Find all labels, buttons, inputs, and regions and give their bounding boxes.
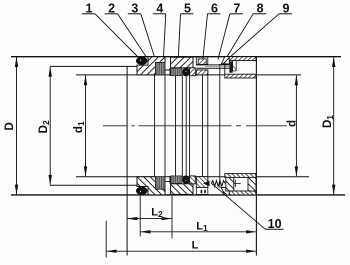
spring 4 bottom	[156, 177, 166, 189]
node: spring B right edge	[181, 75, 183, 177]
seat clamp square top	[233, 61, 237, 71]
pin bar top	[196, 64, 229, 66]
spring 4 top	[156, 63, 166, 75]
node: o-ring edge silhouette	[185, 76, 187, 177]
node: gland left silhouette	[219, 64, 221, 188]
stationary seat upper block top	[196, 57, 208, 64]
dimension D2	[49, 67, 51, 185]
gland top band bottom-half	[229, 191, 256, 195]
node: collar right face	[164, 57, 166, 195]
wire: sleeve od / d1 line top	[76, 74, 301, 76]
spring 10 zigzag bottom	[211, 181, 225, 187]
gland cavity hatched right block bottom	[248, 177, 256, 191]
node: gland right face	[255, 57, 257, 256]
svg-text:D: D	[4, 122, 16, 130]
dimension L2	[128, 218, 172, 220]
gland flange 9 top	[221, 57, 229, 64]
o-ring 1 top	[136, 57, 147, 65]
o-ring 6 top	[182, 68, 190, 77]
wire: housing bore bottom line D	[11, 194, 345, 196]
seat lower white block bottom	[196, 188, 208, 195]
gland flange 9 bottom	[221, 188, 229, 195]
dimension d1	[85, 75, 87, 176]
retainer 5 bottom	[171, 184, 193, 195]
spring B bottom	[171, 176, 182, 184]
stationary seat 8 bottom	[196, 177, 208, 188]
collar 2 bottom	[137, 177, 165, 195]
dimension D	[16, 57, 18, 194]
dimension L	[107, 250, 256, 252]
gland bolt block hatched bottom	[226, 177, 234, 191]
dimension d	[295, 75, 297, 176]
spring seat step bottom	[165, 177, 170, 182]
centerline	[103, 125, 287, 127]
extension line L left	[105, 221, 107, 258]
gland bottom band bottom-half	[225, 174, 256, 178]
svg-text:L1: L1	[196, 221, 208, 234]
svg-text:L: L	[192, 240, 199, 252]
rotating face 7 bottom	[190, 176, 196, 184]
spring B left seat bar top	[170, 68, 171, 76]
spring left seat dark wedge bottom	[203, 181, 210, 187]
wire: D2 extension bottom	[50, 184, 137, 186]
stationary seat 8 top	[196, 70, 208, 75]
spring B top	[171, 68, 182, 76]
wire: D2 extension top	[50, 65, 137, 67]
node: collar boundary silhouette	[154, 57, 156, 195]
bolt hole center mark bottom	[234, 182, 241, 184]
gland set screw dark bar top	[229, 62, 232, 73]
node: seal interface edge	[202, 75, 204, 177]
collar 2 top	[137, 57, 165, 75]
svg-text:L2: L2	[151, 206, 163, 219]
wire: housing bore top line D	[11, 56, 341, 58]
node: sleeve left face	[126, 66, 128, 255]
node: stationary seat right edge	[207, 70, 209, 182]
dimension D1	[333, 57, 335, 194]
gland bottom band top-half	[225, 74, 256, 78]
extension line L2 right	[171, 196, 173, 239]
extension line L1 left	[139, 196, 141, 237]
gland top band	[229, 57, 256, 61]
wire: sleeve od / d1 line bottom	[76, 176, 309, 178]
o-ring 1 bottom	[136, 187, 147, 195]
rotating face 7 top	[190, 68, 196, 76]
gland inner left wall top	[224, 62, 226, 74]
node: pusher edge	[175, 68, 177, 184]
spring B left seat bar bottom	[170, 176, 171, 184]
spring seat step top	[165, 70, 170, 75]
svg-text:d: d	[287, 120, 299, 127]
svg-text:10: 10	[268, 217, 282, 231]
dimension L1	[141, 231, 256, 233]
retainer 5 top	[171, 57, 193, 68]
label 10 leader	[211, 183, 265, 229]
o-ring 6 bottom	[182, 175, 190, 184]
node: rotating face left edge	[189, 68, 191, 184]
